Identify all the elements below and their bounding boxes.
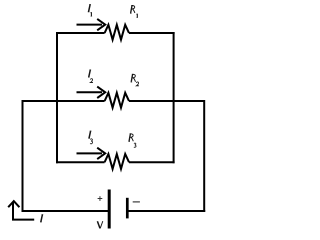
- label I1: [88, 5, 91, 12]
- wire top branch left segment: [56, 32, 105, 34]
- label - (battery negative): [133, 201, 140, 203]
- label R3 subscript 3: [134, 143, 136, 147]
- wire top branch right segment: [129, 32, 175, 34]
- label + (battery positive): [98, 196, 103, 201]
- label V (battery voltage): [97, 221, 102, 228]
- label R1: [130, 5, 135, 13]
- wire bottom parallel branch right segment: [129, 161, 175, 163]
- wire left inner vertical (R1 branch to R3 branch): [56, 32, 58, 163]
- battery V positive plate: [108, 190, 111, 229]
- wire bottom left segment (to battery positive plate): [22, 210, 109, 212]
- label I2: [88, 70, 91, 77]
- wire outer right vertical: [203, 100, 205, 212]
- label I3 subscript 3: [90, 139, 93, 144]
- resistor R3: [105, 154, 129, 169]
- resistor R2: [105, 93, 129, 108]
- label I1 subscript 1: [91, 12, 93, 16]
- wire right inner vertical (R1 branch to R3 branch): [173, 32, 175, 163]
- current arrow I2: [77, 87, 106, 98]
- label R3: [128, 134, 133, 142]
- wire outer left vertical: [22, 100, 24, 212]
- label I (total current): [40, 215, 43, 222]
- label R2: [131, 74, 136, 82]
- label I2 subscript 2: [90, 79, 93, 83]
- resistor R1: [105, 25, 129, 40]
- current arrow I1: [77, 19, 106, 30]
- wire bottom parallel branch left segment: [56, 161, 105, 163]
- label R2 subscript 2: [136, 82, 139, 86]
- label I3: [88, 131, 91, 138]
- label R1 subscript 1: [137, 14, 139, 18]
- wire bottom right segment (battery negative plate to outer right): [127, 210, 205, 212]
- wire middle branch left segment: [23, 100, 105, 102]
- current arrow I (total current, bottom left): [8, 201, 34, 220]
- current arrow I3: [77, 148, 106, 159]
- wire middle branch right segment: [129, 100, 205, 102]
- battery V negative plate: [126, 198, 129, 219]
